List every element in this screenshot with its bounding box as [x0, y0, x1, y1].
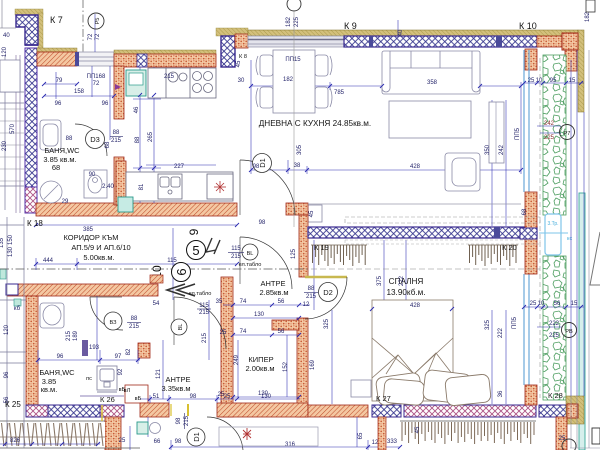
corner block top right	[578, 30, 584, 112]
svg-text:88: 88	[113, 130, 120, 136]
teal box terrace	[137, 422, 148, 434]
wall below K28	[556, 417, 567, 450]
svg-text:72: 72	[93, 81, 100, 87]
svg-text:88: 88	[308, 286, 315, 292]
wall top bathroom	[37, 48, 77, 52]
svg-text:ел.табло: ел.табло	[189, 291, 212, 297]
svg-text:45: 45	[236, 60, 242, 67]
svg-text:13.90кб.м.: 13.90кб.м.	[386, 288, 425, 297]
wall antre bottom	[140, 403, 169, 417]
svg-text:785: 785	[334, 90, 345, 96]
svg-text:152: 152	[283, 361, 289, 372]
svg-text:36: 36	[498, 390, 504, 397]
svg-text:215: 215	[111, 138, 122, 144]
svg-text:88: 88	[135, 136, 141, 143]
bathtub bathroom1	[40, 120, 61, 150]
svg-text:К 27: К 27	[376, 394, 391, 403]
svg-text:227: 227	[174, 164, 185, 170]
svg-text:ел.табло: ел.табло	[239, 262, 262, 268]
wall bedroom bottom	[308, 405, 368, 417]
svg-text:215: 215	[202, 332, 208, 343]
svg-text:29: 29	[62, 199, 69, 205]
door arc bath2	[90, 297, 123, 330]
dim texts living	[253, 16, 505, 170]
svg-text:2.85кв.м: 2.85кв.м	[259, 288, 288, 297]
dim texts corridor	[0, 234, 242, 343]
svg-text:15: 15	[569, 78, 576, 84]
nightstand right	[453, 380, 474, 397]
svg-text:51: 51	[153, 394, 160, 400]
svg-text:КИПЕР: КИПЕР	[248, 355, 273, 364]
neighbour wall line left	[15, 55, 17, 213]
svg-text:98: 98	[175, 439, 182, 445]
dim lines bottom terrace	[130, 417, 400, 450]
coffee table	[389, 101, 471, 138]
svg-text:15: 15	[571, 301, 578, 307]
svg-text:25: 25	[528, 78, 535, 84]
svg-text:265: 265	[148, 131, 154, 142]
svg-text:90: 90	[89, 172, 96, 178]
grid circle P7 right	[560, 125, 575, 140]
dining table	[256, 50, 332, 113]
door arc bedroom D2	[305, 276, 347, 278]
neighbour walls left top	[0, 55, 24, 210]
svg-text:74: 74	[240, 329, 247, 335]
svg-text:2.40: 2.40	[102, 184, 114, 190]
terrace bristle right (wardrobe K below bedroom)	[402, 422, 534, 444]
svg-text:ДНЕВНА С КУХНЯ 24.85кв.м.: ДНЕВНА С КУХНЯ 24.85кв.м.	[259, 119, 371, 128]
door circle D1 terrace	[187, 428, 205, 446]
right edge lines extension	[570, 50, 600, 448]
svg-text:D1: D1	[192, 432, 201, 442]
svg-text:ПП5: ПП5	[515, 127, 521, 140]
svg-text:135: 135	[0, 237, 5, 248]
wall terrace pier bottom left	[105, 417, 121, 450]
wall living top crosshatch	[344, 36, 537, 47]
svg-text:325: 325	[485, 319, 491, 330]
corner block bottom right	[566, 396, 584, 424]
svg-text:358: 358	[427, 80, 438, 86]
doormat rect terrace	[219, 427, 318, 446]
wardrobe K20 bristles	[470, 245, 517, 266]
yellow door frame antre	[187, 404, 189, 416]
radiator tray box on balcony	[545, 214, 561, 255]
svg-text:65: 65	[358, 432, 364, 439]
svg-text:К 19: К 19	[314, 243, 329, 252]
neighbour walls left bottom	[0, 217, 26, 448]
dim texts right edge	[528, 11, 591, 339]
svg-text:350: 350	[485, 144, 491, 155]
svg-text:56: 56	[278, 299, 285, 305]
svg-text:444: 444	[43, 258, 54, 264]
svg-text:9: 9	[187, 228, 201, 235]
svg-text:82: 82	[126, 348, 132, 355]
svg-text:пс: пс	[86, 376, 92, 382]
svg-text:40: 40	[3, 33, 10, 39]
pillows bed	[375, 369, 491, 406]
svg-text:25: 25	[119, 438, 126, 444]
stove asterisk	[214, 181, 226, 193]
wall vertical kiper/bedroom upper	[299, 215, 308, 277]
column K7	[15, 9, 43, 15]
svg-text:225: 225	[549, 333, 560, 339]
svg-text:98: 98	[253, 164, 260, 170]
radiator box top right balcony	[586, 0, 595, 12]
tv cabinet right	[489, 102, 504, 163]
svg-text:74: 74	[240, 299, 247, 305]
door circle BL antre	[171, 319, 187, 335]
teal patches left edge	[0, 269, 6, 279]
svg-text:72: 72	[95, 33, 101, 40]
svg-text:222: 222	[498, 327, 504, 338]
fraction lines for door size labels	[110, 137, 318, 430]
dim lines top area	[44, 14, 398, 99]
dim texts bottom	[154, 210, 566, 448]
washing machine circle bathroom1	[40, 181, 62, 203]
svg-text:88: 88	[131, 316, 138, 322]
svg-text:182: 182	[585, 11, 591, 22]
wardrobe K19 bristles	[313, 245, 366, 266]
dim texts antre kiper	[153, 299, 289, 400]
svg-text:97: 97	[115, 354, 122, 360]
svg-text:К 18: К 18	[27, 219, 43, 228]
svg-text:150: 150	[8, 234, 14, 245]
green stone strip balcony lower	[543, 256, 566, 400]
axis dashdot corridor	[0, 268, 310, 270]
axis dashdot vertical K7	[82, 0, 84, 52]
svg-text:66: 66	[154, 439, 161, 445]
svg-text:115: 115	[167, 258, 177, 264]
toilet box bathroom1 bottom	[84, 170, 107, 198]
svg-text:96: 96	[55, 101, 62, 107]
wall hatched left exterior K18	[25, 48, 37, 187]
svg-text:35: 35	[216, 299, 223, 305]
wall top kitchen	[114, 50, 216, 54]
svg-text:АП.5/9 И АП.6/10: АП.5/9 И АП.6/10	[71, 243, 130, 252]
svg-text:222: 222	[399, 275, 405, 286]
svg-text:249: 249	[234, 354, 240, 365]
grid circle P3 top	[287, 0, 301, 227]
wall bedroom top crosshatch	[308, 227, 537, 238]
red asterisk terrace	[243, 428, 251, 440]
svg-text:120: 120	[4, 324, 10, 335]
svg-text:BL: BL	[178, 324, 184, 331]
svg-text:230: 230	[2, 140, 8, 151]
wall mid horizontal (kitchen bottom)	[36, 203, 237, 216]
teal dishwasher kitchen corner bottom	[118, 197, 133, 212]
dim line living 785	[251, 60, 521, 174]
svg-text:3.35кв.м: 3.35кв.м	[161, 384, 190, 393]
svg-text:225: 225	[544, 135, 555, 141]
svg-text:193: 193	[89, 345, 100, 351]
svg-text:45: 45	[415, 426, 421, 433]
svg-text:30: 30	[238, 78, 245, 84]
svg-text:Р5: Р5	[95, 18, 101, 25]
wall vertical kiper/bedroom lower	[297, 318, 308, 417]
dim 385 under mid wall	[36, 224, 237, 226]
door arc bathroom1	[75, 124, 107, 156]
bed	[372, 300, 453, 401]
svg-text:кб: кб	[14, 306, 21, 312]
pier right upper	[525, 49, 537, 70]
svg-text:68: 68	[105, 141, 111, 148]
svg-text:68: 68	[522, 208, 528, 215]
svg-text:6: 6	[174, 268, 189, 275]
svg-text:333: 333	[387, 439, 398, 445]
wall bathroom1 right vertical	[114, 66, 124, 119]
door circle D2 bedroom	[319, 283, 338, 302]
svg-text:242: 242	[544, 121, 555, 127]
svg-text:25: 25	[530, 301, 537, 307]
upper cabinets dashed above bedroom wall	[345, 217, 540, 223]
dim lines bath2	[38, 296, 140, 364]
svg-text:325: 325	[324, 318, 330, 329]
svg-text:D1: D1	[258, 158, 267, 168]
terrace bristle left	[0, 422, 105, 448]
svg-text:К 26: К 26	[100, 395, 115, 404]
svg-text:К 9: К 9	[344, 21, 357, 31]
svg-text:130: 130	[258, 391, 269, 397]
svg-text:D3: D3	[90, 135, 100, 144]
wall bath2 left vertical	[26, 296, 38, 405]
svg-text:38: 38	[294, 163, 301, 169]
nightstand left	[351, 380, 371, 397]
svg-text:98: 98	[259, 220, 266, 226]
svg-text:АНТРЕ: АНТРЕ	[260, 279, 285, 288]
svg-text:ПП15: ПП15	[285, 57, 301, 63]
wall L living bottom left	[286, 203, 308, 215]
window PP168	[77, 52, 114, 66]
armchair living	[445, 153, 480, 191]
svg-text:316: 316	[285, 442, 296, 448]
svg-text:215: 215	[164, 74, 175, 80]
washing machine bath2	[97, 366, 117, 392]
door circle BL corridor	[242, 244, 258, 260]
svg-text:D2: D2	[323, 288, 333, 297]
entry arrows chevron	[167, 284, 195, 296]
svg-text:56: 56	[4, 396, 10, 403]
svg-text:305: 305	[297, 144, 303, 155]
teal shaft band right edge	[579, 193, 585, 450]
svg-text:215: 215	[306, 294, 317, 300]
svg-text:40: 40	[398, 29, 404, 36]
svg-text:225: 225	[294, 16, 300, 27]
door arc antre top	[174, 297, 226, 349]
dim texts top left	[55, 33, 122, 205]
svg-text:222: 222	[549, 321, 560, 327]
door arc entry	[240, 237, 292, 289]
svg-text:ВЗ: ВЗ	[110, 320, 118, 326]
door arc corridor-living D1	[240, 160, 295, 215]
svg-text:К 28: К 28	[548, 391, 563, 400]
svg-text:130: 130	[8, 246, 14, 257]
grid circle P5	[88, 13, 104, 29]
svg-text:вЛ: вЛ	[124, 388, 131, 394]
svg-text:96: 96	[57, 354, 64, 360]
svg-text:Р7: Р7	[564, 131, 571, 137]
balcony window line PP5	[523, 50, 525, 192]
window living top	[248, 36, 344, 47]
dim texts kitchen	[134, 74, 185, 190]
grid circle PB right lower	[562, 323, 577, 338]
dim lines kitchen verticals	[133, 67, 216, 203]
svg-text:ПП5: ПП5	[512, 316, 518, 329]
svg-text:88: 88	[66, 136, 73, 142]
dresser dashed bedroom top	[345, 240, 540, 244]
svg-text:215: 215	[129, 324, 140, 330]
svg-text:428: 428	[410, 303, 421, 309]
arrow small near circle5	[206, 238, 220, 254]
door arc terrace D1	[207, 417, 243, 450]
dim lines bedroom	[314, 100, 506, 404]
svg-text:ПП168: ПП168	[87, 74, 106, 80]
svg-text:25: 25	[224, 394, 231, 400]
svg-text:115: 115	[231, 246, 241, 252]
wall kiper stub	[272, 320, 299, 330]
svg-text:КОРИДОР КЪМ: КОРИДОР КЪМ	[63, 233, 118, 242]
radiator pier bath2	[82, 340, 88, 356]
revision triangle right edge	[590, 232, 600, 285]
svg-text:215: 215	[184, 415, 190, 426]
dim texts bedroom	[303, 275, 504, 397]
svg-text:570: 570	[10, 123, 16, 134]
svg-text:72: 72	[88, 33, 94, 40]
svg-text:АНТРЕ: АНТРЕ	[165, 375, 190, 384]
svg-text:кс: кс	[567, 236, 572, 242]
svg-text:158: 158	[74, 89, 85, 95]
svg-text:215: 215	[231, 254, 242, 260]
sofa	[382, 51, 480, 94]
wall antre left bits	[138, 343, 150, 358]
svg-text:96: 96	[4, 371, 10, 378]
dim lines right edge	[524, 50, 584, 396]
wall stub corridor door	[150, 275, 163, 283]
neighbour ladder lines	[0, 109, 24, 181]
svg-text:428: 428	[410, 164, 421, 170]
grid circle bottom right	[562, 439, 576, 450]
svg-text:кв.м.: кв.м.	[41, 385, 58, 394]
wall vertical below bedroom left	[378, 417, 386, 450]
circle apartment 6	[172, 263, 191, 282]
extension lines under window	[92, 66, 110, 140]
floor boundary line living	[308, 203, 521, 205]
svg-text:РВ: РВ	[565, 329, 573, 335]
wall antre/kiper vertical	[221, 277, 233, 417]
svg-text:98: 98	[190, 394, 197, 400]
small box right edge bottom	[592, 428, 600, 444]
kitchen top counter appliances	[148, 68, 216, 98]
svg-text:25: 25	[220, 330, 227, 336]
piers right bedroom	[525, 192, 537, 274]
dim texts bath2	[4, 306, 132, 403]
svg-text:БАНЯ,WC: БАНЯ,WC	[39, 368, 75, 377]
svg-text:45: 45	[309, 210, 315, 217]
door circle D1 living	[253, 154, 272, 173]
wall kitchen island left	[116, 161, 126, 205]
cabinet box living bottom left	[308, 205, 322, 222]
svg-text:К 10: К 10	[519, 21, 537, 31]
green stone strip balcony upper	[543, 55, 566, 215]
svg-text:К 8: К 8	[239, 54, 247, 60]
svg-text:182: 182	[286, 16, 292, 27]
svg-text:215: 215	[199, 310, 210, 316]
svg-text:2.00кв.м: 2.00кв.м	[245, 364, 274, 373]
svg-text:25: 25	[559, 436, 566, 442]
column K8	[216, 28, 248, 36]
svg-text:56: 56	[278, 329, 285, 335]
left bottom dims	[0, 443, 100, 445]
svg-text:189: 189	[73, 330, 79, 341]
svg-text:215: 215	[66, 330, 72, 341]
svg-text:5: 5	[192, 243, 199, 258]
svg-text:169: 169	[310, 359, 316, 370]
svg-text:3.Тр.: 3.Тр.	[547, 221, 558, 227]
door circle D3	[86, 130, 105, 149]
svg-text:46: 46	[134, 106, 140, 113]
dim line corridor 444	[36, 228, 237, 300]
wall corridor bottom	[7, 284, 158, 296]
svg-text:БАНЯ,WC: БАНЯ,WC	[44, 146, 80, 155]
svg-text:375: 375	[377, 275, 383, 286]
svg-text:242: 242	[499, 144, 505, 155]
wall bath2 bottom crosshatch K25-K26	[26, 405, 48, 417]
sink unit teal kitchen corner	[126, 70, 146, 96]
svg-text:125: 125	[291, 248, 297, 259]
svg-text:12: 12	[303, 302, 310, 308]
svg-text:68: 68	[52, 163, 60, 172]
svg-text:вБ: вБ	[135, 396, 142, 402]
svg-text:5.00кв.м.: 5.00кв.м.	[83, 253, 114, 262]
tv cabinet inner line	[495, 102, 497, 163]
svg-text:К 7: К 7	[50, 15, 63, 25]
svg-text:96: 96	[102, 101, 109, 107]
svg-text:130: 130	[254, 312, 265, 318]
dim lines antre kiper	[140, 300, 310, 403]
dimension tick marks	[34, 81, 583, 449]
svg-text:115: 115	[199, 303, 209, 309]
svg-text:BL: BL	[247, 251, 254, 257]
olive strip living top	[248, 30, 578, 36]
svg-text:54: 54	[153, 301, 160, 307]
door hinge mark bathroom1	[115, 84, 121, 90]
sink bath2	[40, 303, 64, 328]
circle apartment 5	[187, 241, 206, 260]
svg-text:98: 98	[176, 417, 182, 424]
svg-text:79: 79	[56, 78, 63, 84]
svg-text:К 20: К 20	[502, 243, 517, 252]
kitchen island counter	[126, 172, 233, 201]
svg-text:56: 56	[554, 301, 561, 307]
svg-text:92: 92	[118, 368, 124, 375]
svg-text:826: 826	[10, 438, 21, 444]
svg-text:182: 182	[283, 77, 294, 83]
svg-text:95: 95	[550, 78, 557, 84]
svg-text:81: 81	[139, 183, 145, 190]
svg-text:СПАЛНЯ: СПАЛНЯ	[389, 277, 424, 286]
svg-text:121: 121	[156, 368, 162, 379]
